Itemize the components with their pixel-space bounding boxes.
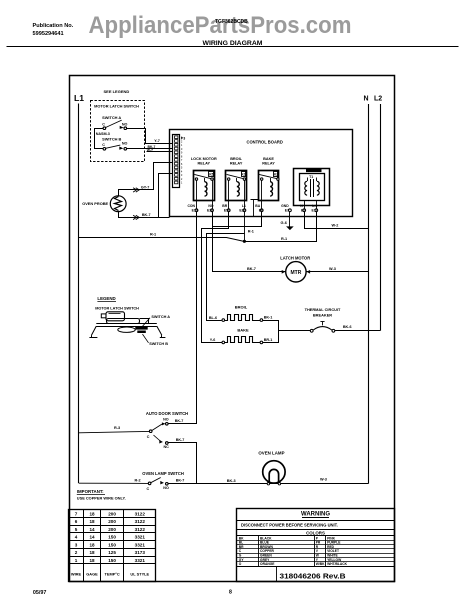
svg-text:SWITCH B: SWITCH B — [149, 342, 168, 346]
svg-text:18: 18 — [89, 511, 95, 516]
svg-text:OVEN PROBE: OVEN PROBE — [82, 201, 108, 206]
svg-text:WARNING: WARNING — [301, 512, 330, 518]
svg-text:LOCK MOTOR: LOCK MOTOR — [191, 157, 217, 161]
svg-text:L-1: L-1 — [312, 204, 317, 208]
wire switch A NO to connector Y-7 — [127, 129, 173, 144]
svg-text:14: 14 — [89, 535, 95, 540]
svg-text:W-3: W-3 — [329, 267, 336, 271]
control board box — [170, 130, 353, 217]
switch B symbol — [103, 148, 106, 151]
svg-text:SWITCH A: SWITCH A — [151, 315, 170, 319]
svg-text:R-1: R-1 — [150, 233, 156, 237]
svg-text:R-1: R-1 — [248, 230, 254, 234]
wire gauge table — [69, 510, 156, 582]
wire element right link — [263, 321, 279, 343]
svg-text:6: 6 — [75, 519, 78, 524]
svg-text:18: 18 — [89, 558, 95, 563]
svg-text:BAKE: BAKE — [237, 327, 249, 332]
svg-text:3122: 3122 — [135, 527, 146, 532]
svg-text:C: C — [147, 435, 150, 439]
svg-text:3122: 3122 — [135, 511, 146, 516]
svg-text:L1: L1 — [242, 204, 246, 208]
wire W-7 to connector — [147, 151, 173, 153]
wire N terminal W-2 — [305, 212, 369, 229]
svg-text:3321: 3321 — [135, 535, 146, 540]
wire L2 bus — [380, 104, 382, 331]
svg-text:150: 150 — [108, 558, 116, 563]
wire NC to lamp circuit — [169, 443, 197, 484]
svg-text:C: C — [102, 143, 105, 147]
wire broil element feed — [207, 234, 245, 321]
svg-text:OVEN LAMP: OVEN LAMP — [258, 451, 284, 456]
svg-text:BA: BA — [255, 204, 260, 208]
svg-text:BK-7: BK-7 — [176, 478, 185, 482]
svg-text:DISCONNECT POWER BEFORE SERVIC: DISCONNECT POWER BEFORE SERVICING UNIT. — [241, 523, 338, 528]
svg-text:BROIL: BROIL — [230, 157, 242, 161]
svg-text:GAGE: GAGE — [86, 571, 98, 576]
auto door switch symbol — [149, 430, 152, 433]
svg-text:MOTOR LATCH SWITCH: MOTOR LATCH SWITCH — [95, 306, 139, 310]
oven lamp symbol — [263, 461, 285, 483]
svg-text:NO: NO — [163, 486, 169, 490]
svg-text:3321: 3321 — [135, 542, 146, 547]
wire motor to N bus — [306, 271, 368, 273]
svg-text:W/BK: W/BK — [316, 562, 325, 566]
connector chevrons BK-7 — [133, 215, 139, 219]
svg-text:K1: K1 — [242, 173, 246, 177]
connector chevrons GY-7 — [133, 188, 139, 192]
svg-text:BR: BR — [222, 204, 227, 208]
motor latch switch dashed box — [91, 101, 145, 162]
wire probe top GY-7 — [119, 163, 173, 196]
broil element — [222, 319, 225, 322]
svg-text:MOTOR LATCH SWITCH: MOTOR LATCH SWITCH — [94, 104, 139, 109]
svg-text:BL-6: BL-6 — [209, 316, 217, 320]
wire R-1 from L1 bus — [79, 212, 317, 242]
svg-text:E7: E7 — [285, 209, 289, 213]
svg-text:200: 200 — [108, 527, 116, 532]
wire R-2 from L1 bus — [79, 482, 148, 484]
svg-text:BK-7: BK-7 — [176, 438, 185, 442]
svg-text:Y-6: Y-6 — [210, 338, 216, 342]
diagram border frame — [70, 76, 395, 582]
wire L1 terminal drop — [244, 212, 246, 242]
svg-text:C: C — [147, 487, 150, 491]
svg-text:NASM-3: NASM-3 — [96, 132, 110, 136]
legend leader switch A — [141, 318, 151, 329]
svg-text:UL STYLE: UL STYLE — [130, 571, 149, 576]
svg-text:BREAKER: BREAKER — [313, 313, 332, 318]
junction dot R-1 — [243, 240, 246, 243]
svg-text:IMPORTANT:: IMPORTANT: — [77, 489, 104, 494]
svg-text:WIRING DIAGRAM: WIRING DIAGRAM — [203, 40, 263, 47]
svg-text:CON: CON — [187, 204, 195, 208]
svg-text:L1: L1 — [74, 93, 84, 103]
svg-text:150: 150 — [108, 535, 116, 540]
svg-text:200: 200 — [108, 519, 116, 524]
svg-text:NC: NC — [164, 445, 170, 449]
svg-text:NO: NO — [208, 204, 213, 208]
wire N bus — [368, 104, 370, 484]
warning box — [237, 509, 395, 582]
svg-text:BK-3: BK-3 — [227, 479, 236, 483]
svg-text:BK-6: BK-6 — [343, 325, 352, 329]
svg-text:NO: NO — [122, 123, 128, 127]
wire BA to NO — [213, 212, 262, 227]
switch A symbol — [103, 127, 106, 130]
svg-text:R-2: R-2 — [135, 479, 141, 483]
wire BK-6 to L2 — [335, 330, 380, 332]
oven probe thermistor — [110, 196, 126, 212]
wire to thermal breaker — [278, 330, 310, 332]
svg-text:R-3: R-3 — [114, 426, 120, 430]
svg-text:T1: T1 — [309, 175, 313, 179]
svg-text:O: O — [239, 562, 242, 566]
svg-text:14: 14 — [89, 527, 95, 532]
svg-text:BROIL: BROIL — [235, 305, 248, 310]
svg-text:THERMAL CIRCUIT: THERMAL CIRCUIT — [305, 307, 341, 312]
svg-text:COLORS: COLORS — [306, 531, 325, 536]
svg-text:4: 4 — [75, 535, 78, 540]
auto door switch NC contact — [154, 435, 160, 440]
svg-text:LEGEND: LEGEND — [97, 296, 115, 301]
wire relay K1 to K2 stub — [251, 199, 259, 201]
svg-text:W-7: W-7 — [147, 149, 153, 153]
svg-text:ORANGE: ORANGE — [260, 562, 275, 566]
svg-text:USE COPPER WIRE ONLY.: USE COPPER WIRE ONLY. — [77, 496, 126, 501]
svg-text:W-2: W-2 — [332, 224, 339, 228]
svg-text:BR-1: BR-1 — [264, 338, 273, 342]
wire lamp circuit BK-3 — [168, 483, 368, 485]
svg-text:BK-7: BK-7 — [247, 267, 256, 271]
svg-text:RELAY: RELAY — [262, 162, 275, 166]
svg-text:WIRE: WIRE — [71, 571, 82, 576]
svg-text:3122: 3122 — [135, 519, 146, 524]
svg-text:G-6: G-6 — [281, 221, 287, 225]
svg-text:NO: NO — [122, 142, 128, 146]
svg-text:AUTO DOOR SWITCH: AUTO DOOR SWITCH — [146, 411, 188, 416]
svg-text:18: 18 — [89, 542, 95, 547]
svg-text:3: 3 — [75, 542, 78, 547]
legend leader switch B — [143, 334, 149, 343]
svg-text:200: 200 — [108, 511, 116, 516]
connector P3 terminal strip — [173, 135, 180, 188]
latch motor MTR — [286, 262, 306, 282]
svg-text:N: N — [364, 96, 369, 103]
svg-text:SWITCH A: SWITCH A — [102, 115, 121, 120]
svg-text:SEE LEGEND: SEE LEGEND — [104, 89, 130, 94]
svg-text:3321: 3321 — [135, 558, 146, 563]
wire R-3 from L1 bus — [79, 431, 149, 432]
header rule — [7, 46, 459, 48]
svg-text:150: 150 — [108, 542, 116, 547]
svg-text:Y-7: Y-7 — [154, 139, 160, 143]
terminal GND E7 — [289, 209, 292, 212]
svg-text:BK-1: BK-1 — [264, 316, 273, 320]
svg-text:7: 7 — [75, 511, 78, 516]
svg-text:TEMP°C: TEMP°C — [105, 571, 120, 576]
svg-text:E6: E6 — [259, 209, 263, 213]
svg-text:5: 5 — [75, 527, 78, 532]
svg-text:Publication No.: Publication No. — [33, 23, 74, 29]
ground symbol — [289, 212, 291, 227]
transformer T1 — [294, 169, 330, 206]
svg-text:05/97: 05/97 — [33, 590, 47, 596]
svg-text:WHT/BLACK: WHT/BLACK — [327, 562, 348, 566]
svg-text:18: 18 — [89, 519, 95, 524]
wire L1 bus — [78, 104, 80, 484]
svg-text:3173: 3173 — [135, 550, 146, 555]
svg-text:5995294641: 5995294641 — [33, 31, 64, 37]
wire probe bottom BK-7 — [119, 212, 170, 218]
svg-text:RELAY: RELAY — [230, 162, 243, 166]
svg-text:BK-7: BK-7 — [142, 213, 151, 217]
svg-text:2: 2 — [75, 550, 78, 555]
svg-text:NO: NO — [163, 418, 169, 422]
svg-text:K5: K5 — [209, 173, 213, 177]
svg-text:BAKE: BAKE — [263, 157, 274, 161]
svg-text:E50: E50 — [224, 209, 230, 213]
svg-text:C: C — [102, 123, 105, 127]
svg-text:1: 1 — [75, 558, 78, 563]
svg-text:GY-7: GY-7 — [141, 186, 149, 190]
svg-text:MTR: MTR — [290, 270, 301, 276]
wire CON to auto door switch — [169, 212, 197, 424]
wire switch B NO to connector — [127, 148, 173, 150]
oven lamp switch symbol — [148, 482, 151, 485]
wire switch commons — [95, 129, 104, 149]
svg-text:8: 8 — [229, 590, 232, 596]
wire NO to latch motor — [213, 212, 286, 272]
svg-text:18: 18 — [89, 550, 95, 555]
svg-text:SWITCH B: SWITCH B — [102, 137, 121, 142]
svg-text:GND: GND — [281, 204, 289, 208]
svg-text:W-3: W-3 — [320, 477, 327, 481]
svg-text:AppliancePartsPros.com: AppliancePartsPros.com — [89, 12, 352, 39]
svg-text:CONTROL BOARD: CONTROL BOARD — [247, 139, 283, 144]
svg-text:OVEN LAMP SWITCH: OVEN LAMP SWITCH — [142, 471, 184, 476]
svg-text:RELAY: RELAY — [198, 162, 211, 166]
svg-text:125: 125 — [108, 550, 116, 555]
svg-text:LATCH MOTOR: LATCH MOTOR — [280, 256, 310, 261]
wire BR to bake element — [202, 212, 229, 343]
svg-text:TGF362BCDB: TGF362BCDB — [215, 19, 248, 25]
thermal circuit breaker symbol — [310, 329, 313, 332]
svg-text:318046206 Rev.B: 318046206 Rev.B — [280, 571, 346, 580]
svg-text:L2: L2 — [374, 96, 382, 103]
svg-text:BK-7: BK-7 — [175, 419, 184, 423]
svg-text:R-1: R-1 — [281, 237, 287, 241]
bake element — [222, 341, 225, 344]
